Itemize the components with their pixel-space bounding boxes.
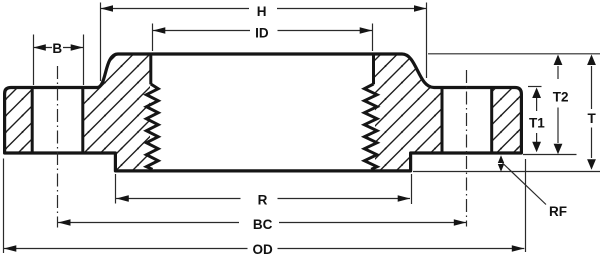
svg-text:ID: ID [255,26,269,41]
svg-text:T: T [587,111,596,126]
svg-text:T2: T2 [553,90,569,105]
svg-text:H: H [257,4,267,19]
svg-text:RF: RF [549,204,567,219]
svg-text:R: R [258,193,268,208]
svg-text:B: B [52,41,62,56]
svg-text:OD: OD [252,242,273,256]
svg-text:BC: BC [253,217,273,232]
svg-text:T1: T1 [529,115,545,130]
